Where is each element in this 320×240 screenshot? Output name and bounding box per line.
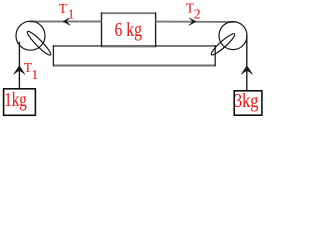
block bottom edge bbox=[101, 45, 156, 47]
table right edge bbox=[214, 45, 216, 66]
svg-text:1: 1 bbox=[31, 68, 38, 83]
block M 6 kg (box on table) bbox=[101, 13, 156, 45]
block right edge bbox=[155, 12, 157, 47]
table bottom edge bbox=[53, 65, 216, 67]
block left edge bbox=[101, 12, 103, 47]
mass m2 box bbox=[234, 91, 262, 115]
wire: left vertical string (pulley to 1kg) bbox=[18, 42, 20, 89]
arrow (right vertical string, pointing up) bbox=[242, 66, 253, 74]
svg-text:1: 1 bbox=[68, 7, 75, 22]
svg-text:6 kg: 6 kg bbox=[115, 19, 143, 41]
svg-text:1kg: 1kg bbox=[4, 89, 27, 111]
mass m1 box bbox=[4, 89, 36, 116]
arrow T2 (right, on top string, pointing right) bbox=[189, 18, 196, 25]
svg-text:T: T bbox=[59, 1, 68, 16]
wire: right horizontal string (block to right pulley) bbox=[156, 21, 236, 23]
wire: right vertical string (pulley to 3kg) bbox=[246, 36, 248, 91]
table left edge bbox=[52, 45, 54, 66]
arrow T1 (left vertical string, pointing up) bbox=[14, 66, 25, 74]
left pulley wheel bbox=[16, 21, 45, 50]
arrow T1 (left, on top string, pointing left) bbox=[63, 18, 70, 25]
svg-text:2: 2 bbox=[194, 7, 201, 22]
svg-text:3kg: 3kg bbox=[234, 90, 258, 112]
right pulley side disc (ellipse) bbox=[209, 32, 236, 57]
left pulley side disc (ellipse) bbox=[25, 29, 52, 57]
block top edge bbox=[101, 12, 156, 14]
right pulley wheel bbox=[219, 22, 247, 50]
table (tabletop rectangle) bbox=[53, 45, 216, 47]
wire: left horizontal string (block to left pulley) bbox=[29, 21, 102, 23]
